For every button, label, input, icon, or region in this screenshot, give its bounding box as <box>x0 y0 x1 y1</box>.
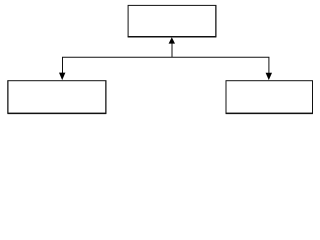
wire right vertical <box>268 57 270 74</box>
bottom-right box <box>226 81 313 114</box>
top box <box>128 5 217 37</box>
arrowhead up into top box <box>169 37 175 43</box>
arrowhead down into left box <box>59 73 65 81</box>
bottom-left box <box>8 80 107 113</box>
wire center vertical <box>171 43 173 57</box>
arrowhead down into right box <box>266 73 272 80</box>
wire left vertical <box>62 57 64 74</box>
wire trunk horizontal <box>62 56 269 58</box>
